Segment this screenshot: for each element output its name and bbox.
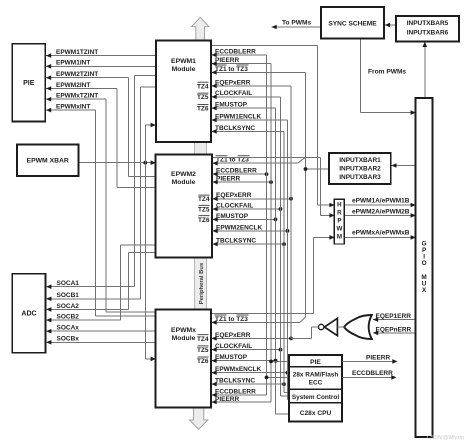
svg-text:TBCLKSYNC: TBCLKSYNC bbox=[215, 378, 255, 385]
svg-text:R: R bbox=[337, 209, 342, 216]
label TBCLKSYNC (EPWMx) bbox=[215, 378, 255, 385]
peripheral bus band segment between EPWM1 and EPWM2 bbox=[195, 142, 207, 155]
label CLOCKFAIL (EPWM1) bbox=[215, 90, 252, 97]
divider ECC/System Control bbox=[289, 388, 342, 390]
label From PWMs bbox=[368, 69, 406, 76]
label INPUTXBAR3 bbox=[339, 174, 381, 181]
svg-text:TBCLKSYNC: TBCLKSYNC bbox=[216, 238, 256, 245]
svg-text:EPWM XBAR: EPWM XBAR bbox=[27, 158, 69, 165]
label PIEERR (output) bbox=[366, 354, 391, 361]
label SOCB2 bbox=[57, 314, 80, 321]
wire SOCBx (EPWMx to ADC) bbox=[46, 340, 155, 345]
wire EPWMxINT (EPWMx to PIE) bbox=[46, 108, 156, 316]
label EPWM2 Module bbox=[171, 171, 196, 186]
wire CLOCKFAIL into EPWM1 bbox=[212, 95, 281, 100]
wire EPWM1ENCLK into EPWM1 bbox=[212, 118, 288, 123]
svg-text:ECCDBLERR: ECCDBLERR bbox=[352, 370, 393, 377]
wire PIEERR into EPWM2 bbox=[213, 180, 273, 185]
wire ePWM2 output to HRPWM bbox=[213, 158, 335, 218]
svg-text:EPWM2: EPWM2 bbox=[171, 171, 196, 178]
label GPIO MUX (vertical letters) bbox=[421, 240, 427, 294]
label EPWM1TZINT bbox=[56, 49, 98, 56]
svg-text:Peripheral Bus: Peripheral Bus bbox=[199, 262, 205, 304]
svg-text:M: M bbox=[337, 233, 342, 240]
label INPUTXBAR2 bbox=[339, 165, 381, 172]
wire To PWMs (from SYNC SCHEME) bbox=[272, 25, 322, 30]
wire EPWMxTZINT (EPWMx to PIE) bbox=[46, 97, 156, 312]
svg-text:PIEERR: PIEERR bbox=[215, 396, 240, 403]
label EPWMx Module bbox=[171, 327, 196, 342]
label EPWMxINT bbox=[56, 104, 90, 111]
svg-text:TZ1 to TZ3: TZ1 to TZ3 bbox=[215, 316, 248, 323]
svg-text:PIE: PIE bbox=[23, 80, 35, 87]
wire From PWMs (SYNC SCHEME to GPIO MUX) bbox=[361, 39, 416, 115]
svg-text:X: X bbox=[422, 287, 427, 294]
svg-text:ePWMxA/ePWMxB: ePWMxA/ePWMxB bbox=[352, 230, 410, 237]
svg-text:INPUTXBAR2: INPUTXBAR2 bbox=[339, 165, 381, 172]
svg-text:Module: Module bbox=[172, 66, 196, 73]
svg-text:ePWM1A/ePWM1B: ePWM1A/ePWM1B bbox=[352, 198, 410, 205]
label TBCLKSYNC (EPWM1) bbox=[215, 125, 255, 132]
svg-text:TBCLKSYNC: TBCLKSYNC bbox=[215, 125, 255, 132]
svg-text:PIEERR: PIEERR bbox=[366, 354, 391, 361]
svg-text:EQEPnERR: EQEPnERR bbox=[376, 326, 412, 333]
wire CLOCKFAIL into EPWMx bbox=[212, 347, 283, 352]
wire EPWM2ENCLK into EPWM2 bbox=[213, 229, 290, 234]
wire SOCB2 (EPWM2 to ADC) bbox=[46, 245, 155, 322]
wire PIEERR output (stack to right) bbox=[342, 359, 397, 364]
label SOCA2 bbox=[57, 303, 80, 310]
svg-text:SOCB2: SOCB2 bbox=[57, 314, 80, 321]
label HRPWM (vertical letters) bbox=[336, 201, 342, 240]
wire EPWM XBAR branch to EPWM1 bbox=[145, 123, 156, 163]
svg-text:TZ6: TZ6 bbox=[197, 358, 209, 365]
svg-text:EMUSTOP: EMUSTOP bbox=[216, 213, 249, 220]
label EPWM1 Module bbox=[171, 58, 196, 73]
wire TZ1 to TZ3 into EPWM2 (diagonal from trunk) bbox=[213, 157, 306, 165]
wire EPWM XBAR branch to EPWMx bbox=[145, 163, 156, 362]
wire INPUTXBAR1-3 to TZ trunk bbox=[304, 167, 330, 171]
label SYNC SCHEME bbox=[328, 20, 377, 27]
wire SOCA2 (EPWM2 to ADC) bbox=[46, 253, 155, 312]
peripheral bus bottom arrow (hollow down arrow below EPWMx) bbox=[189, 407, 207, 429]
wire EQEPxERR into EPWMx (from inverter) bbox=[212, 336, 312, 341]
trunk ENCLK vertical (to System Control) bbox=[288, 120, 289, 400]
wire TBCLKSYNC into EPWM2 bbox=[213, 242, 286, 247]
wire ECCDBLERR into EPWM2 bbox=[213, 172, 269, 177]
svg-text:ECCDBLERR: ECCDBLERR bbox=[215, 388, 256, 395]
label TZ6 (EPWMx) bbox=[197, 357, 209, 365]
label EPWM1ENCLK bbox=[215, 113, 262, 120]
svg-text:EQEPxERR: EQEPxERR bbox=[215, 79, 251, 86]
svg-text:EPWMxINT: EPWMxINT bbox=[56, 104, 90, 111]
peripheral bus band segment between EPWM2 and EPWMx (Peripheral Bus) bbox=[195, 257, 207, 309]
svg-text:C28x CPU: C28x CPU bbox=[300, 410, 332, 417]
label TZ1 to TZ3 (EPWM1) bbox=[215, 65, 249, 73]
label EPWMxTZINT bbox=[56, 93, 98, 100]
wire EPWM XBAR output to EPWM2 bbox=[79, 160, 156, 165]
wire SOCAx (EPWMx to ADC) bbox=[46, 329, 155, 334]
wire SOCA1 (EPWM1 to ADC) bbox=[46, 76, 156, 290]
svg-text:CSDN @Wlyzm: CSDN @Wlyzm bbox=[427, 435, 464, 441]
label SOCAx bbox=[57, 325, 80, 332]
CPU subsystem stack block bbox=[289, 355, 342, 421]
label SOCB1 bbox=[57, 292, 80, 299]
junction on EPWM XBAR line bbox=[143, 161, 147, 165]
svg-text:SOCA1: SOCA1 bbox=[57, 280, 80, 287]
wire INPUTXBAR5/6 to SYNC SCHEME bbox=[385, 23, 396, 28]
wire SOCB1 (EPWM1 to ADC) bbox=[46, 87, 156, 301]
svg-text:SOCB1: SOCB1 bbox=[57, 292, 80, 299]
svg-text:SOCBx: SOCBx bbox=[57, 336, 80, 343]
wire EQEPxERR into EPWM1 bbox=[212, 84, 292, 89]
svg-text:CLOCKFAIL: CLOCKFAIL bbox=[215, 90, 252, 97]
label EMUSTOP (EPWM2) bbox=[216, 213, 249, 220]
wire EMUSTOP into EPWM2 bbox=[213, 217, 278, 222]
trunk EMUSTOP vertical (to C28x CPU) bbox=[274, 108, 289, 414]
SYNC SCHEME block bbox=[321, 7, 384, 39]
wire ECCDBLERR into EPWM1 bbox=[212, 53, 267, 58]
watermark bbox=[427, 435, 464, 441]
wire GPIO MUX to INPUTXBAR1-3 bbox=[391, 163, 415, 168]
svg-text:PIEERR: PIEERR bbox=[215, 57, 240, 64]
wire EPWM2INT (EPWM2 to PIE) bbox=[46, 86, 156, 187]
svg-text:INPUTXBAR6: INPUTXBAR6 bbox=[407, 30, 449, 37]
svg-text:EPWMxTZINT: EPWMxTZINT bbox=[56, 93, 98, 100]
svg-text:ADC: ADC bbox=[21, 311, 36, 318]
svg-text:TZ4: TZ4 bbox=[198, 196, 210, 203]
svg-text:SOCA2: SOCA2 bbox=[57, 303, 80, 310]
svg-text:TZ5: TZ5 bbox=[197, 94, 209, 101]
label TZ5 (EPWMx) bbox=[197, 346, 209, 354]
svg-text:PIE: PIE bbox=[310, 359, 321, 366]
label TZ4 (EPWM1) bbox=[197, 82, 209, 90]
label TZ5 (EPWM1) bbox=[197, 93, 209, 101]
label EQEPxERR (EPWMx) bbox=[215, 332, 251, 339]
label EQEPxERR (EPWM1) bbox=[215, 79, 251, 86]
label TZ5 (EPWM2) bbox=[198, 205, 210, 213]
EPWM XBAR block bbox=[17, 144, 79, 176]
peripheral bus top arrow (hollow up arrow above EPWM1) bbox=[191, 17, 209, 40]
label PIEERR (EPWMx) bbox=[215, 396, 240, 403]
label ECCDBLERR (EPWMx) bbox=[215, 388, 256, 395]
svg-text:INPUTXBAR3: INPUTXBAR3 bbox=[339, 174, 381, 181]
svg-text:ECCDBLERR: ECCDBLERR bbox=[216, 168, 257, 175]
trunk TZ1 to TZ3 vertical bbox=[305, 72, 307, 317]
svg-text:EPWM1: EPWM1 bbox=[171, 58, 196, 65]
svg-text:EQEPxERR: EQEPxERR bbox=[215, 332, 251, 339]
wire EQEPnERR into OR gate bbox=[373, 331, 416, 336]
GPIO MUX block bbox=[416, 98, 433, 437]
label TZ6 (EPWM2) bbox=[198, 216, 210, 224]
svg-text:TZ6: TZ6 bbox=[198, 217, 210, 224]
wire EQEP1ERR into OR gate bbox=[373, 317, 416, 322]
label ePWM2A/ePWM2B bbox=[352, 209, 410, 216]
svg-text:CLOCKFAIL: CLOCKFAIL bbox=[216, 202, 253, 209]
wire EPWM2TZINT (EPWM2 to PIE) bbox=[46, 75, 156, 176]
wire EMUSTOP into EPWMx bbox=[212, 358, 278, 363]
svg-text:TZ6: TZ6 bbox=[197, 106, 209, 113]
svg-text:ePWM2A/ePWM2B: ePWM2A/ePWM2B bbox=[352, 209, 410, 216]
wire EMUSTOP into EPWM1 bbox=[212, 106, 276, 111]
EPWMx Module block bbox=[156, 310, 212, 408]
trunk ECCDBLERR vertical bbox=[266, 55, 268, 395]
inverter U3 (triangle with bubble, pointing left) bbox=[319, 318, 345, 335]
label TZ4 (EPWMx) bbox=[197, 335, 209, 343]
label INPUTXBAR5 bbox=[407, 20, 449, 27]
svg-text:EPWM2INT: EPWM2INT bbox=[56, 82, 90, 89]
peripheral bus label bbox=[199, 262, 205, 304]
svg-text:From PWMs: From PWMs bbox=[368, 69, 406, 76]
svg-text:W: W bbox=[336, 225, 342, 232]
svg-text:EPWMxENCLK: EPWMxENCLK bbox=[215, 366, 262, 373]
OR gate U2 (mirrored, output left) bbox=[344, 315, 372, 339]
svg-text:TZ5: TZ5 bbox=[198, 206, 210, 213]
label ECCDBLERR (EPWM2) bbox=[216, 168, 257, 175]
svg-text:ECC: ECC bbox=[309, 379, 323, 386]
wire GPIO MUX to INPUTXBAR5/6 bbox=[423, 42, 428, 98]
EPWM2 Module block bbox=[156, 155, 213, 258]
label EMUSTOP (EPWM1) bbox=[215, 102, 248, 109]
label ECCDBLERR (output) bbox=[352, 370, 393, 377]
label PIE (stack) bbox=[310, 359, 321, 366]
label TZ1 to TZ3 (EPWM2) bbox=[216, 156, 250, 164]
svg-text:SYNC SCHEME: SYNC SCHEME bbox=[328, 20, 377, 27]
label EPWM2ENCLK bbox=[216, 224, 263, 231]
svg-text:TZ4: TZ4 bbox=[197, 83, 209, 90]
label EPWM1INT bbox=[56, 60, 90, 67]
wire TZ1 to TZ3 into EPWM1 bbox=[212, 70, 306, 75]
label SOCA1 bbox=[57, 280, 80, 287]
svg-text:SOCAx: SOCAx bbox=[57, 325, 80, 332]
label TZ1 to TZ3 (EPWMx) bbox=[215, 315, 249, 323]
svg-text:System Control: System Control bbox=[292, 394, 339, 401]
HRPWM block bbox=[334, 199, 344, 244]
label INPUTXBAR1 bbox=[339, 157, 381, 164]
svg-text:EMUSTOP: EMUSTOP bbox=[215, 102, 248, 109]
label CLOCKFAIL (EPWM2) bbox=[216, 202, 253, 209]
svg-text:TZ4: TZ4 bbox=[197, 336, 209, 343]
wire TBCLKSYNC into EPWM1 bbox=[212, 129, 285, 134]
label 28x RAM/Flash ECC bbox=[293, 371, 339, 386]
trunk TBCLKSYNC vertical (to System Control) bbox=[284, 131, 289, 392]
svg-text:Module: Module bbox=[172, 335, 196, 342]
INPUTXBAR5/INPUTXBAR6 block bbox=[396, 16, 459, 42]
EPWM1 Module block bbox=[156, 41, 211, 143]
trunk PIEERR vertical bbox=[270, 64, 272, 402]
svg-text:INPUTXBAR1: INPUTXBAR1 bbox=[339, 157, 381, 164]
wire CLOCKFAIL into EPWM2 bbox=[213, 207, 283, 212]
label To PWMs bbox=[282, 19, 312, 26]
stub PIE block to PIEERR trunk bbox=[269, 360, 289, 364]
svg-text:EPWM2TZINT: EPWM2TZINT bbox=[56, 71, 98, 78]
wire inverter output to EQEPxERR trunk bbox=[291, 327, 319, 338]
label PIE bbox=[23, 80, 35, 87]
wire ePWMx output to HRPWM bbox=[212, 235, 335, 314]
label TBCLKSYNC (EPWM2) bbox=[216, 238, 256, 245]
wire EPWM1TZINT (EPWM1 to PIE) bbox=[46, 53, 156, 58]
label EQEPnERR bbox=[376, 326, 412, 333]
label ECCDBLERR (EPWM1) bbox=[215, 48, 256, 55]
svg-text:PIEERR: PIEERR bbox=[216, 176, 241, 183]
wire ECCDBLERR into EPWMx bbox=[212, 393, 267, 398]
label EMUSTOP (EPWMx) bbox=[215, 354, 248, 361]
svg-text:EPWM2ENCLK: EPWM2ENCLK bbox=[216, 224, 263, 231]
wire ePWMxA/ePWMxB to GPIO MUX bbox=[344, 235, 415, 240]
wire EPWM1INT (EPWM1 to PIE) bbox=[46, 64, 156, 69]
label INPUTXBAR6 bbox=[407, 30, 449, 37]
trunk CLOCKFAIL vertical (to System Control) bbox=[281, 97, 289, 396]
svg-text:To PWMs: To PWMs bbox=[282, 19, 312, 26]
svg-text:P: P bbox=[337, 217, 341, 224]
svg-text:O: O bbox=[422, 260, 427, 267]
wire TBCLKSYNC into EPWMx bbox=[212, 382, 286, 387]
svg-text:EQEP1ERR: EQEP1ERR bbox=[376, 313, 412, 320]
label ePWM1A/ePWM1B bbox=[352, 198, 410, 205]
wire EPWMxENCLK into EPWMx bbox=[212, 370, 290, 375]
label PIEERR (EPWM2) bbox=[216, 176, 241, 183]
svg-text:Module: Module bbox=[172, 179, 196, 186]
label CLOCKFAIL (EPWMx) bbox=[215, 343, 252, 350]
label System Control bbox=[292, 394, 339, 401]
divider PIE/ECC bbox=[289, 366, 342, 368]
svg-text:TZ5: TZ5 bbox=[197, 347, 209, 354]
wire ePWM2A/ePWM2B to GPIO MUX bbox=[344, 213, 415, 218]
wire ePWM1A/ePWM1B to GPIO MUX bbox=[344, 203, 415, 208]
svg-text:TZ1 to TZ3: TZ1 to TZ3 bbox=[215, 66, 248, 73]
label EPWM2INT bbox=[56, 82, 90, 89]
label EPWM2TZINT bbox=[56, 71, 98, 78]
svg-text:28x RAM/Flash: 28x RAM/Flash bbox=[293, 371, 339, 378]
svg-text:ECCDBLERR: ECCDBLERR bbox=[215, 48, 256, 55]
label SOCBx bbox=[57, 336, 80, 343]
wire EQEPxERR into EPWM2 bbox=[213, 197, 293, 202]
ADC block bbox=[12, 274, 45, 353]
label PIEERR (EPWM1) bbox=[215, 57, 240, 64]
wire TZ1 to TZ3 into EPWMx (diagonal from trunk) bbox=[212, 317, 306, 325]
stub ECC block to ECCDBLERR trunk bbox=[265, 376, 289, 380]
svg-text:EMUSTOP: EMUSTOP bbox=[215, 354, 248, 361]
INPUTXBAR1/2/3 block bbox=[329, 153, 391, 184]
label TZ6 (EPWM1) bbox=[197, 104, 209, 112]
svg-text:EPWMx: EPWMx bbox=[171, 327, 196, 334]
label EQEPxERR (EPWM2) bbox=[216, 192, 252, 199]
wire ePWM1 output to HRPWM bbox=[212, 46, 335, 208]
trunk EQEPxERR vertical bbox=[290, 86, 292, 339]
label EQEP1ERR bbox=[376, 313, 412, 320]
label EPWMxENCLK bbox=[215, 366, 262, 373]
PIE block bbox=[12, 44, 45, 122]
svg-text:CLOCKFAIL: CLOCKFAIL bbox=[215, 343, 252, 350]
wire ECCDBLERR output (stack to right) bbox=[342, 375, 396, 380]
wire PIEERR into EPWMx bbox=[212, 400, 272, 405]
label TZ4 (EPWM2) bbox=[198, 195, 210, 203]
wire PIEERR into EPWM1 bbox=[212, 61, 272, 66]
svg-text:EPWM1ENCLK: EPWM1ENCLK bbox=[215, 113, 262, 120]
svg-text:INPUTXBAR5: INPUTXBAR5 bbox=[407, 20, 449, 27]
svg-text:EQEPxERR: EQEPxERR bbox=[216, 192, 252, 199]
label ADC bbox=[21, 311, 36, 318]
svg-text:EPWM1TZINT: EPWM1TZINT bbox=[56, 49, 98, 56]
svg-text:EPWM1INT: EPWM1INT bbox=[56, 60, 90, 67]
label EPWM XBAR bbox=[27, 158, 69, 165]
svg-text:H: H bbox=[337, 201, 342, 208]
label ePWMxA/ePWMxB bbox=[352, 230, 410, 237]
divider System Control/C28x CPU bbox=[289, 402, 342, 404]
label C28x CPU bbox=[300, 410, 332, 417]
